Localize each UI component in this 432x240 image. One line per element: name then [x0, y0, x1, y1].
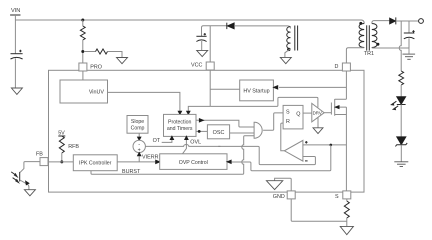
transformer TR1 — [359, 24, 377, 58]
svg-text:OVP Control: OVP Control — [179, 160, 208, 166]
wire aux winding net — [202, 26, 227, 36]
wire top rail to transformer — [15, 20, 364, 24]
block HV Startup — [240, 80, 274, 101]
wire driver to gate of MOSFET — [324, 112, 331, 114]
node dot Protection-OSC — [198, 130, 201, 133]
pin FB — [40, 158, 48, 166]
svg-text:BURST: BURST — [122, 169, 141, 175]
wire VCC to HV startup — [210, 88, 240, 90]
resistor R2 PRO to ground — [84, 49, 122, 57]
pin PRO — [79, 63, 87, 71]
wire VCC to driver supply — [210, 97, 318, 107]
wire slope comp to summer — [138, 133, 140, 137]
resistor RFB — [59, 136, 79, 162]
capacitor C3 output — [404, 21, 415, 48]
ground sense — [340, 226, 353, 234]
node TR1 secondary dot — [376, 43, 379, 46]
ground internal — [266, 181, 282, 190]
node FB junction — [60, 160, 63, 163]
svg-text:Protection: Protection — [168, 119, 191, 125]
wire VinUV to Protection — [108, 92, 180, 111]
gate AND U2 — [254, 122, 262, 138]
node output terminal — [419, 19, 424, 24]
svg-text:OSC: OSC — [213, 130, 225, 136]
driver DRV U3 — [312, 103, 324, 122]
node junction rail-R1 — [81, 19, 84, 22]
node aux phase dot — [287, 48, 290, 51]
svg-text:VCC: VCC — [191, 63, 202, 69]
ground R2 — [117, 58, 128, 64]
wire Protection to OSC — [196, 130, 207, 132]
svg-text:OT: OT — [153, 138, 161, 144]
svg-text:and Timers: and Timers — [167, 126, 193, 132]
zener D4 — [395, 137, 407, 162]
node VIN terminal — [10, 8, 20, 15]
wire S pin to sense resistor — [346, 199, 348, 201]
wire drain column — [345, 71, 347, 99]
ground driver — [317, 117, 319, 127]
wire VCC pin lead — [209, 26, 211, 62]
svg-text:RFB: RFB — [68, 144, 79, 150]
optocoupler transistor — [11, 162, 40, 190]
svg-text:VIERR: VIERR — [142, 155, 159, 161]
ground input — [11, 88, 22, 94]
wire OVL to Protection — [183, 139, 187, 154]
ground opto — [24, 190, 35, 196]
svg-text:R: R — [286, 119, 290, 125]
svg-text:S: S — [286, 110, 290, 116]
block IPK Controller — [73, 155, 117, 171]
block OSC — [207, 125, 229, 139]
wire VCC internal — [209, 70, 211, 106]
svg-text:Comp: Comp — [131, 126, 145, 132]
latch SR — [283, 105, 303, 128]
capacitor C1 input bulk — [11, 50, 23, 88]
wire D to HV startup — [279, 86, 346, 88]
node TR1 primary dot — [359, 22, 362, 25]
wire aux to ground — [285, 49, 291, 58]
svg-text:Slope: Slope — [131, 119, 144, 125]
wire OT to Protection — [162, 139, 172, 142]
svg-text:FB: FB — [36, 152, 43, 158]
resistor R4 sense — [344, 201, 349, 226]
wire VCC to Protection — [188, 106, 210, 111]
LED optocoupler D3 — [391, 97, 405, 137]
node sense junction — [330, 144, 333, 147]
block Slope Comp — [127, 116, 148, 134]
transistor Q1 MOSFET — [331, 99, 346, 116]
block OVP Control — [160, 154, 227, 170]
diode D1 aux rectifier — [227, 23, 291, 29]
pin S bottom — [343, 191, 351, 199]
pin VCC — [206, 62, 214, 70]
svg-text:IPK Controller: IPK Controller — [79, 161, 112, 167]
wire PRO pin lead — [82, 53, 84, 63]
svg-text:HV Startup: HV Startup — [243, 88, 269, 94]
wire gate to latch S — [263, 113, 283, 130]
wire comparator plus input to sense — [303, 144, 347, 146]
pin GND — [287, 191, 295, 199]
wire output divider branch with hop — [399, 21, 401, 71]
capacitor C2 VCC — [196, 33, 206, 50]
svg-text:DRV: DRV — [313, 111, 322, 116]
svg-text:TR1: TR1 — [364, 51, 374, 57]
svg-text:VinUV: VinUV — [89, 90, 105, 96]
wire OSC to gate — [230, 132, 255, 134]
wire comparator out to latch R — [281, 123, 285, 151]
wire BURST — [91, 136, 254, 175]
wire GND internal — [275, 178, 292, 191]
wire summer to VIERR — [138, 156, 140, 162]
svg-text:VIN: VIN — [11, 8, 20, 14]
resistor R1 PRO upper — [80, 20, 85, 50]
svg-text:PRO: PRO — [90, 64, 102, 70]
summing node — [133, 140, 145, 153]
svg-text:OVL: OVL — [190, 140, 201, 146]
inductor aux winding — [287, 26, 298, 51]
wire VIN rail — [14, 15, 16, 53]
wire VIERR — [117, 161, 157, 163]
wire summer to comparator minus — [218, 145, 220, 147]
IC main box — [49, 70, 365, 192]
wire primary bottom to D pin — [346, 48, 364, 64]
wire PRO to VinUV — [82, 71, 84, 80]
svg-text:D: D — [335, 64, 339, 70]
wire latch Q to driver — [303, 112, 312, 114]
ground earth secondary — [403, 48, 416, 59]
ground VCC cap — [197, 50, 208, 56]
ground earth zener — [394, 162, 408, 167]
svg-text:S: S — [335, 194, 339, 200]
block VinUV — [60, 80, 108, 103]
pin D — [342, 63, 350, 71]
wire sense to OVP — [230, 145, 330, 171]
svg-text:GND: GND — [273, 194, 285, 200]
resistor R3 output — [399, 71, 404, 97]
node junction R1-R2-PRO — [81, 50, 84, 53]
wire secondary bottom return — [372, 47, 409, 50]
ground aux winding — [280, 57, 291, 63]
block Protection and Timers — [164, 114, 197, 136]
wire FB to IPK — [49, 161, 74, 163]
wire Protection to gate — [196, 120, 254, 127]
svg-text:Q: Q — [296, 111, 300, 117]
diode D2 output rectifier — [390, 17, 419, 24]
wire GND to sense resistor — [291, 199, 347, 221]
wire secondary top to diode — [372, 21, 390, 24]
wire source column — [345, 107, 347, 191]
comparator U4 current sense — [284, 140, 307, 161]
